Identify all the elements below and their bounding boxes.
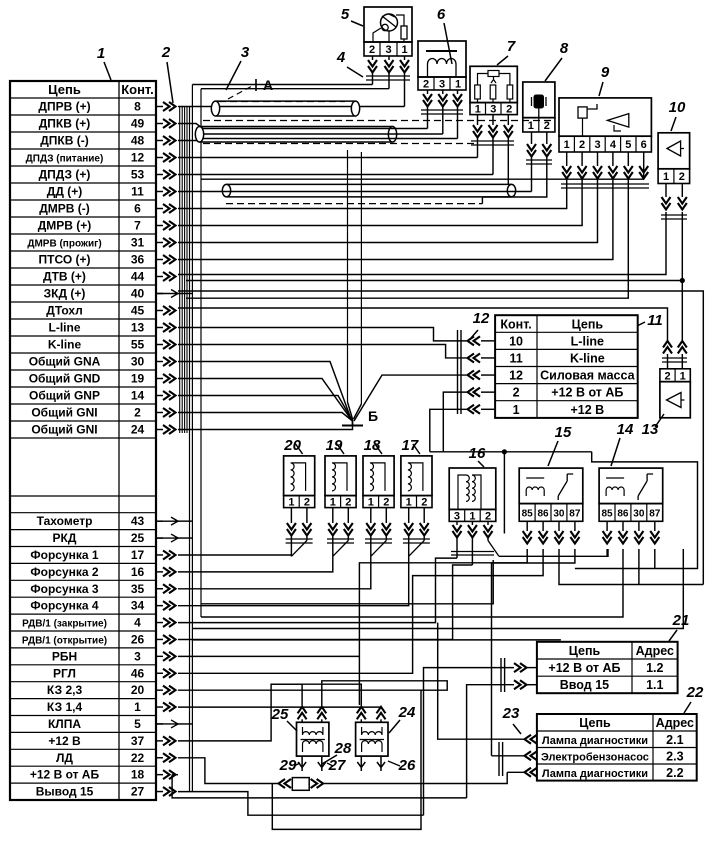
svg-text:2: 2 xyxy=(506,104,512,116)
label 6 leader xyxy=(444,23,452,64)
svg-text:Общий GNI: Общий GNI xyxy=(31,423,97,437)
shield dash B bottom xyxy=(203,143,475,145)
svg-text:46: 46 xyxy=(131,666,145,680)
wires below coil 24 (HT leads) xyxy=(357,756,365,771)
svg-text:Тахометр: Тахометр xyxy=(37,514,93,528)
svg-text:1: 1 xyxy=(330,497,336,509)
wire pin2 down xyxy=(681,212,683,341)
wire KZ14 to coil24 xyxy=(178,706,381,708)
svg-text:ДМРВ (прожиг): ДМРВ (прожиг) xyxy=(27,239,101,250)
svg-text:ДПКВ (-): ДПКВ (-) xyxy=(40,134,89,148)
svg-text:11: 11 xyxy=(647,312,663,329)
svg-text:1: 1 xyxy=(455,79,461,91)
label 12 leader xyxy=(471,330,478,338)
svg-text:1: 1 xyxy=(513,403,520,417)
svg-text:Конт.: Конт. xyxy=(500,317,531,331)
wire RDV close xyxy=(178,558,457,623)
svg-text:14: 14 xyxy=(617,421,634,438)
svg-text:30: 30 xyxy=(131,355,145,369)
svg-text:48: 48 xyxy=(131,134,145,148)
svg-text:2: 2 xyxy=(513,386,520,400)
label 5 leader xyxy=(351,21,363,26)
wire +12 xyxy=(430,409,467,452)
wire bus run 3 xyxy=(192,639,561,641)
svg-text:Адрес: Адрес xyxy=(636,644,674,658)
wires below module 16 xyxy=(456,521,458,525)
svg-text:ДМРВ (+): ДМРВ (+) xyxy=(38,219,92,233)
harness bus vertical wires xyxy=(179,107,181,434)
crossover 16 xyxy=(488,541,499,557)
svg-text:16: 16 xyxy=(131,565,145,579)
shield cylinder C xyxy=(227,183,512,185)
wire RGL to relay15-86 xyxy=(178,549,543,673)
wire power ground xyxy=(354,375,467,421)
svg-text:26: 26 xyxy=(398,757,416,774)
svg-text:1: 1 xyxy=(680,370,686,382)
svg-text:РГЛ: РГЛ xyxy=(53,666,76,680)
wire DPKV- xyxy=(203,133,443,135)
wire DD+ (in shield C) xyxy=(178,191,532,193)
wire DTohl xyxy=(178,308,668,341)
wire DTV to pin1 xyxy=(178,212,666,275)
wire 5.3 to bus xyxy=(201,88,389,90)
svg-text:3: 3 xyxy=(439,79,445,91)
svg-text:2: 2 xyxy=(485,510,491,522)
wires below injector 19 xyxy=(332,508,334,523)
svg-text:10: 10 xyxy=(509,334,523,348)
svg-text:2.3: 2.3 xyxy=(666,749,683,763)
wire relay15-87 to fuel pump xyxy=(492,549,575,756)
shield dash A xyxy=(219,101,345,103)
label 25 leader xyxy=(287,721,297,731)
svg-text:12: 12 xyxy=(473,310,490,327)
wire PTSO pin4 xyxy=(178,179,613,260)
svg-text:2: 2 xyxy=(664,370,670,382)
wire to sensor 13 pin1 xyxy=(186,280,682,282)
svg-text:12: 12 xyxy=(509,369,523,383)
wires below sensor 5 xyxy=(372,56,374,60)
wires below injector 20 xyxy=(290,508,292,523)
wire bottom 829 run xyxy=(272,690,421,829)
svg-text:+12 В: +12 В xyxy=(570,403,604,417)
crossover xyxy=(371,541,387,557)
wire module to relay 85 xyxy=(499,549,608,556)
svg-text:Цепь: Цепь xyxy=(48,82,81,97)
svg-text:2.2: 2.2 xyxy=(666,766,683,780)
svg-text:27: 27 xyxy=(131,785,145,799)
svg-text:37: 37 xyxy=(131,734,145,748)
wires below coil 25 (HT leads) xyxy=(298,756,306,771)
svg-text:30: 30 xyxy=(633,508,645,519)
svg-text:26: 26 xyxy=(131,632,145,646)
svg-text:Общий GNA: Общий GNA xyxy=(29,355,101,369)
svg-text:КЗ 2,3: КЗ 2,3 xyxy=(47,683,83,697)
wire DPKV- row into shield B xyxy=(178,139,203,141)
wire injector 2 xyxy=(178,556,371,589)
svg-text:Лампа диагностики: Лампа диагностики xyxy=(542,768,648,780)
svg-text:L-line: L-line xyxy=(571,334,604,348)
label 27 leader xyxy=(327,763,333,766)
svg-text:34: 34 xyxy=(131,599,145,613)
svg-text:87: 87 xyxy=(649,508,661,519)
twist mark xyxy=(457,330,459,414)
svg-text:43: 43 xyxy=(131,514,145,528)
svg-text:ДПДЗ (+): ДПДЗ (+) xyxy=(39,168,91,182)
svg-text:Б: Б xyxy=(368,408,378,424)
wire pin6 up xyxy=(643,178,645,180)
svg-text:2: 2 xyxy=(679,171,685,183)
svg-text:2: 2 xyxy=(134,406,141,420)
svg-text:ЗКД (+): ЗКД (+) xyxy=(44,287,86,301)
svg-text:20: 20 xyxy=(283,437,301,454)
svg-text:12: 12 xyxy=(131,151,145,165)
wire relay 30 bus xyxy=(559,549,703,585)
svg-text:11: 11 xyxy=(131,185,144,199)
label 26 leader xyxy=(388,761,400,766)
sensor 8 (knock sensor) xyxy=(523,82,555,118)
svg-text:5: 5 xyxy=(134,717,141,731)
svg-text:86: 86 xyxy=(617,508,629,519)
svg-text:2: 2 xyxy=(304,497,310,509)
wire +12AB bottom run xyxy=(172,775,467,798)
svg-text:ДД (+): ДД (+) xyxy=(47,185,82,199)
svg-text:3: 3 xyxy=(134,649,141,663)
label 22 leader xyxy=(684,702,691,713)
svg-text:+12 В от АБ: +12 В от АБ xyxy=(551,386,623,400)
svg-text:6: 6 xyxy=(134,202,141,216)
label 13 leader xyxy=(655,414,664,427)
svg-text:Конт.: Конт. xyxy=(121,82,154,97)
crossover xyxy=(333,541,349,557)
svg-text:85: 85 xyxy=(522,508,534,519)
svg-text:КЛПА: КЛПА xyxy=(48,717,81,731)
svg-text:1: 1 xyxy=(134,700,141,714)
wire bus xyxy=(200,89,202,617)
svg-text:87: 87 xyxy=(569,508,581,519)
svg-text:24: 24 xyxy=(398,704,416,721)
sensor 7 (throttle position sensor) xyxy=(470,66,517,102)
label 8 leader xyxy=(545,58,562,81)
wires below sensor 10 xyxy=(665,184,667,198)
injector 18 xyxy=(363,456,394,496)
svg-text:5: 5 xyxy=(341,6,350,23)
svg-text:1: 1 xyxy=(663,171,669,183)
ignition coil 24 xyxy=(356,722,388,756)
wires below sensor 9 xyxy=(566,152,568,166)
svg-text:1: 1 xyxy=(288,497,294,509)
label 10 leader xyxy=(671,117,676,131)
label 11 leader xyxy=(637,322,645,326)
sensor 13 (coolant temperature sensor) xyxy=(660,369,690,382)
svg-text:ДТВ (+): ДТВ (+) xyxy=(43,270,86,284)
connector pinout table (left) xyxy=(10,81,156,800)
svg-text:55: 55 xyxy=(131,338,145,352)
svg-text:2: 2 xyxy=(369,44,375,56)
svg-text:31: 31 xyxy=(131,236,145,250)
shield cylinder A xyxy=(216,100,356,102)
svg-text:ДМРВ (-): ДМРВ (-) xyxy=(39,202,90,216)
svg-text:ПТСО (+): ПТСО (+) xyxy=(39,253,91,267)
wire lamp 2.1 xyxy=(438,623,524,740)
svg-text:ЛД: ЛД xyxy=(56,751,73,765)
label 17 leader xyxy=(413,444,420,454)
svg-text:Адрес: Адрес xyxy=(656,716,694,730)
svg-text:40: 40 xyxy=(131,287,145,301)
svg-text:13: 13 xyxy=(642,421,659,438)
svg-text:ДПРВ (+): ДПРВ (+) xyxy=(38,100,90,114)
shield dash C xyxy=(226,203,482,205)
wire fuel pump 2.3 xyxy=(492,755,525,757)
wire DPDZ supply xyxy=(178,157,478,159)
svg-text:3: 3 xyxy=(594,139,600,151)
svg-text:16: 16 xyxy=(469,445,486,462)
svg-text:28: 28 xyxy=(334,740,352,757)
label 9 leader xyxy=(599,82,603,96)
svg-text:Силовая масса: Силовая масса xyxy=(540,369,635,383)
wires below sensor 7 xyxy=(477,115,479,125)
label 18 leader xyxy=(375,444,382,454)
svg-text:1: 1 xyxy=(406,497,412,509)
svg-text:5: 5 xyxy=(625,139,631,151)
svg-text:Форсунка 4: Форсунка 4 xyxy=(30,599,99,613)
wire lamp 2.2 b xyxy=(322,772,507,783)
connector table 11 xyxy=(495,315,638,418)
crossover xyxy=(291,541,307,557)
svg-text:ДПКВ (+): ДПКВ (+) xyxy=(39,117,91,131)
wire RBN xyxy=(178,655,359,657)
wire +12 rail xyxy=(430,451,592,453)
svg-text:2: 2 xyxy=(345,497,351,509)
svg-text:Электробензонасос: Электробензонасос xyxy=(541,751,649,763)
svg-text:13: 13 xyxy=(131,321,145,335)
label 29 leader xyxy=(294,763,300,766)
svg-text:53: 53 xyxy=(131,168,145,182)
svg-text:1.1: 1.1 xyxy=(646,678,663,692)
svg-text:10: 10 xyxy=(669,99,686,116)
wires above coil 25 xyxy=(298,707,307,720)
wire bus xyxy=(191,85,193,792)
svg-text:Цепь: Цепь xyxy=(572,317,604,331)
label 14 leader xyxy=(611,438,620,466)
wire 87 loop xyxy=(575,452,698,569)
svg-text:4: 4 xyxy=(134,616,141,630)
svg-text:3: 3 xyxy=(241,44,250,61)
svg-text:K-line: K-line xyxy=(48,338,82,352)
svg-text:L-line: L-line xyxy=(49,321,81,335)
wire injector 3 xyxy=(178,556,333,572)
svg-text:15: 15 xyxy=(555,424,572,441)
wire GNI xyxy=(178,413,353,422)
label 7 leader xyxy=(497,56,508,65)
wire pin6 to bus xyxy=(201,178,644,180)
injector 20 xyxy=(284,456,315,496)
junction xyxy=(502,449,507,454)
wire knock shield to drain xyxy=(482,157,546,204)
svg-text:4: 4 xyxy=(610,139,617,151)
svg-text:18: 18 xyxy=(131,768,145,782)
svg-text:7: 7 xyxy=(507,38,516,55)
wire ZKD to right edge xyxy=(178,291,703,585)
svg-text:1: 1 xyxy=(564,139,570,151)
svg-text:17: 17 xyxy=(131,548,145,562)
svg-text:Ввод 15: Ввод 15 xyxy=(560,678,609,692)
wire RBN to relay15-85 xyxy=(359,549,527,705)
wire GNA xyxy=(178,362,351,420)
label 20 leader xyxy=(296,444,303,454)
ignition coil 25 xyxy=(297,722,329,756)
wire relay14-86 run xyxy=(201,549,623,617)
wire +12 to coil25 xyxy=(178,684,302,741)
wire DMRV- pin1 xyxy=(178,179,567,209)
label 19 leader xyxy=(337,444,344,454)
twist mark 22 xyxy=(498,742,500,776)
inline connector (diagnostic lamp lead) xyxy=(279,779,292,788)
wire DMRV burn pin3 xyxy=(178,179,598,243)
svg-text:49: 49 xyxy=(131,117,145,131)
svg-text:2: 2 xyxy=(579,139,585,151)
svg-text:19: 19 xyxy=(326,437,343,454)
sensor 9 (mass airflow sensor) xyxy=(559,98,651,136)
svg-text:21: 21 xyxy=(672,612,690,629)
svg-text:2: 2 xyxy=(423,79,429,91)
wires above sensor 13 xyxy=(663,341,672,354)
svg-text:2: 2 xyxy=(161,44,171,61)
wire DPRV row to sensor 5 pin1 xyxy=(178,106,405,108)
svg-text:3: 3 xyxy=(454,510,460,522)
svg-text:22: 22 xyxy=(131,751,145,765)
svg-text:3: 3 xyxy=(490,104,496,116)
svg-text:+12 В от АБ: +12 В от АБ xyxy=(548,661,620,675)
svg-text:1: 1 xyxy=(528,120,534,132)
svg-text:25: 25 xyxy=(131,531,145,545)
wires below injector 18 xyxy=(370,508,372,523)
sensor 6 (crankshaft position sensor) xyxy=(418,41,466,77)
ground bar B xyxy=(342,425,363,427)
svg-text:РДВ/1 (открытие): РДВ/1 (открытие) xyxy=(22,635,107,646)
svg-text:44: 44 xyxy=(131,270,145,284)
label 24 leader xyxy=(389,720,400,733)
wire L-line xyxy=(178,328,467,341)
svg-text:РБН: РБН xyxy=(52,649,77,663)
label 15 leader xyxy=(548,441,558,466)
svg-text:Форсунка 1: Форсунка 1 xyxy=(30,548,99,562)
svg-text:24: 24 xyxy=(131,423,145,437)
address table 21 xyxy=(537,642,678,693)
svg-text:6: 6 xyxy=(641,139,647,151)
wire to 1.2 xyxy=(424,668,515,816)
svg-text:Форсунка 3: Форсунка 3 xyxy=(30,582,99,596)
wires below sensor 6 xyxy=(427,90,429,94)
svg-text:Вывод 15: Вывод 15 xyxy=(36,785,94,799)
svg-text:+12 В: +12 В xyxy=(48,734,81,748)
wire DPKV shield xyxy=(203,138,458,140)
shield dash B top xyxy=(203,120,553,122)
svg-text:Лампа диагностики: Лампа диагностики xyxy=(542,735,648,747)
terminal A xyxy=(228,86,252,99)
wire +12 to coil24 xyxy=(271,684,361,707)
svg-text:Общий GND: Общий GND xyxy=(29,372,101,386)
wire injector 1 xyxy=(178,556,409,605)
svg-text:7: 7 xyxy=(134,219,141,233)
label 23 leader xyxy=(513,724,521,734)
wire DPKV+ xyxy=(203,128,428,130)
table 11 wires xyxy=(481,340,495,342)
sensor 10 (air temperature sensor) xyxy=(658,133,690,169)
svg-text:+12 В от АБ: +12 В от АБ xyxy=(30,768,100,782)
relay 15 xyxy=(519,468,583,504)
wire relay14-87 xyxy=(654,549,656,569)
svg-text:8: 8 xyxy=(560,40,569,57)
svg-text:1: 1 xyxy=(469,510,475,522)
wire Vyvod15 bottom run xyxy=(178,792,424,816)
label 16 leader xyxy=(478,461,484,467)
svg-text:4: 4 xyxy=(336,49,346,66)
svg-text:РКД: РКД xyxy=(53,531,77,545)
svg-text:6: 6 xyxy=(437,6,446,23)
twist mark 21 xyxy=(500,658,502,692)
svg-text:1: 1 xyxy=(401,44,407,56)
svg-text:2: 2 xyxy=(544,120,550,132)
svg-text:Цепь: Цепь xyxy=(579,716,611,730)
sensor 5 (camshaft phase sensor) xyxy=(364,7,412,42)
svg-text:14: 14 xyxy=(131,389,145,403)
wire K-line xyxy=(178,345,467,358)
svg-text:Цепь: Цепь xyxy=(569,644,601,658)
wire injector 4 xyxy=(178,555,291,556)
wires below injector 17 xyxy=(408,508,410,523)
svg-text:2: 2 xyxy=(421,497,427,509)
svg-text:23: 23 xyxy=(502,705,520,722)
svg-text:2.1: 2.1 xyxy=(666,733,683,747)
address table 22 xyxy=(537,714,697,781)
svg-text:19: 19 xyxy=(131,372,145,386)
svg-text:85: 85 xyxy=(601,508,613,519)
svg-text:45: 45 xyxy=(131,304,145,318)
svg-text:30: 30 xyxy=(553,508,565,519)
wires below sensor 8 xyxy=(531,132,533,144)
relay 14 xyxy=(599,468,663,504)
row output arrows xyxy=(156,106,163,108)
svg-text:25: 25 xyxy=(271,706,289,723)
wire pin5 xyxy=(186,179,628,298)
label 21 leader xyxy=(669,630,677,641)
svg-text:11: 11 xyxy=(509,351,522,365)
svg-text:РДВ/1 (закрытие): РДВ/1 (закрытие) xyxy=(22,619,107,630)
svg-text:1.2: 1.2 xyxy=(646,661,663,675)
injector 17 xyxy=(401,456,432,496)
table 21 wires xyxy=(514,663,527,672)
wire DPDZ signal xyxy=(178,174,493,176)
svg-text:ДПДЗ (питание): ДПДЗ (питание) xyxy=(26,154,104,165)
svg-text:8: 8 xyxy=(134,100,141,114)
svg-text:17: 17 xyxy=(402,437,419,454)
injector 19 xyxy=(325,456,356,496)
wire bus xyxy=(189,107,191,792)
module 16 (idle air control valve) xyxy=(449,468,496,509)
wire GNP xyxy=(178,396,352,421)
wire relay14-30 xyxy=(638,549,640,585)
svg-text:18: 18 xyxy=(364,437,381,454)
wire KZ23 to coil25 xyxy=(178,681,447,707)
shield drain 1 xyxy=(347,150,349,402)
svg-text:Общий GNI: Общий GNI xyxy=(31,406,97,420)
table 22 wires xyxy=(525,735,538,744)
wire DPKV+ row into shield B xyxy=(178,124,203,129)
svg-text:2: 2 xyxy=(383,497,389,509)
wire relay14-85 xyxy=(606,549,608,556)
wire LD to connector xyxy=(178,758,278,784)
wires above coil 24 xyxy=(357,707,366,720)
